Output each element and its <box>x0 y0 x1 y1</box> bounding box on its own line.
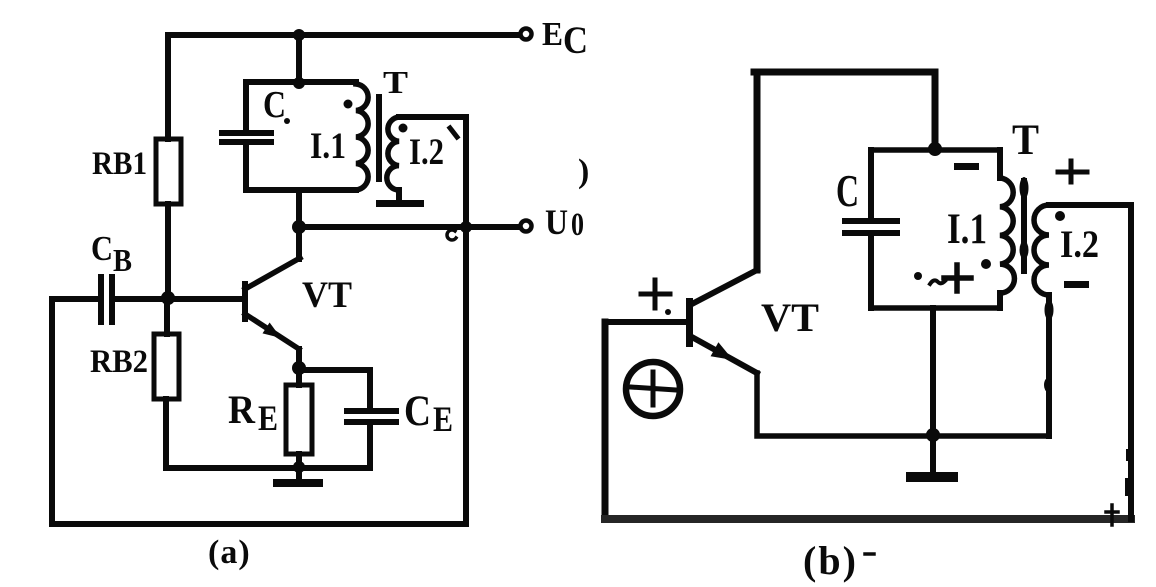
svg-text:T: T <box>1012 117 1039 164</box>
node: right vertical on U0 line <box>460 221 472 233</box>
node: ground junction (b) <box>926 428 940 442</box>
mark: minus below L2 (b) <box>1064 281 1089 288</box>
wire: emitter bottom line (b) <box>757 373 1049 436</box>
wire: tank left lower leg (b) <box>868 233 874 308</box>
transistor VT (b) emitter arm with arrow <box>690 336 757 373</box>
label L1 (b) <box>947 206 987 253</box>
svg-text:C: C <box>836 166 859 216</box>
polarity dot L2 (b) <box>1055 211 1065 221</box>
wire: RB1 to base node <box>165 204 171 299</box>
label (b) <box>803 538 874 583</box>
wire: right vertical (a) <box>463 117 469 524</box>
svg-text:(b): (b) <box>803 538 858 583</box>
wire: L2 bottom stub <box>396 190 402 201</box>
node: tank top junction <box>293 77 305 89</box>
mark: parenthesis <box>578 153 589 190</box>
wire: ground stub (b) <box>930 436 936 473</box>
wire: base node to RB2 <box>164 299 170 334</box>
svg-text:): ) <box>578 153 589 190</box>
node: tank top junction (b) <box>928 142 942 156</box>
svg-text:I.2: I.2 <box>1060 223 1099 266</box>
transistor VT (b) base bar <box>686 298 693 347</box>
wire: CE bottom leg <box>367 424 373 468</box>
label T (a) <box>383 64 408 100</box>
wire: tank bottom to collector <box>296 190 302 259</box>
wire: inner bottom rail (a) <box>166 465 370 471</box>
svg-text:U: U <box>545 202 568 242</box>
wire: collector vertical (b) <box>754 72 761 270</box>
label RB1 <box>92 146 147 182</box>
svg-text:I.1: I.1 <box>947 206 987 253</box>
svg-text:C: C <box>263 84 286 126</box>
node: collector junction on U0 line <box>292 220 306 234</box>
wire: feed to tank (b) <box>932 72 939 150</box>
mark: apostrophe right of L2 <box>450 128 457 137</box>
wire: tank left lower leg <box>243 144 249 190</box>
label L2 (a) <box>409 132 444 173</box>
wire: bottom rail (b) <box>605 515 1131 523</box>
label CB <box>91 229 132 278</box>
wire: L2 top to right vertical (b) <box>1049 202 1131 208</box>
label RB2 <box>90 344 148 380</box>
label EC <box>542 16 588 62</box>
wire: tank left upper leg (b) <box>868 150 874 219</box>
wire: tank bottom (b) <box>871 305 1000 311</box>
wire: U0 output line <box>299 224 519 230</box>
ground: L2 (a) <box>376 200 424 207</box>
source: circle with plus (b) <box>626 362 680 416</box>
node: base junction <box>161 291 175 305</box>
label U0 <box>545 202 584 243</box>
label T (b) <box>1012 117 1039 164</box>
svg-text:C: C <box>563 19 588 62</box>
transistor VT (a) collector arm <box>245 258 300 289</box>
polarity dot L2 (a) <box>399 124 408 133</box>
svg-text:B: B <box>113 242 132 278</box>
capacitor C (b) <box>845 221 897 233</box>
label C (a) <box>263 84 290 126</box>
wire: top rail (b) <box>754 69 935 76</box>
mark: tick on bottom rail (b) <box>1106 505 1118 525</box>
wire: left vertical (b) <box>602 322 609 519</box>
wire: input to CB <box>52 296 99 302</box>
svg-text:C: C <box>404 388 431 435</box>
transistor VT (a) emitter arm with arrow <box>245 314 299 349</box>
inductor L2 (b) <box>1034 205 1049 295</box>
svg-text:R: R <box>228 387 256 432</box>
wire: tank center vertical (b) <box>930 308 936 436</box>
ground (a) <box>273 479 323 487</box>
transformer core T (a) <box>376 94 382 182</box>
label RE <box>228 387 278 438</box>
node: RE bottom junction <box>293 461 305 473</box>
wire: tank top (b) <box>871 147 1000 153</box>
svg-text:C: C <box>91 229 113 268</box>
label C (b) <box>836 166 859 216</box>
label L1 (a) <box>310 126 346 167</box>
terminal EC <box>521 29 532 40</box>
label VT (b) <box>761 295 819 340</box>
terminal U0 <box>521 221 532 232</box>
svg-text:I.1: I.1 <box>310 126 346 167</box>
transistor VT (b) collector arm <box>690 270 757 305</box>
svg-text:E: E <box>433 399 453 439</box>
mark: plus bottom of tank (b) <box>944 265 971 291</box>
mark: smudge e near U0 junction <box>447 230 456 240</box>
mark: plus near base (b) <box>641 280 671 315</box>
wire: rail to tank top <box>296 35 302 82</box>
wire: top supply rail (a) <box>168 32 519 38</box>
wire: tank left upper leg <box>243 82 249 131</box>
mark: plus above L2 (b) <box>1058 161 1087 182</box>
wire: CE top leg <box>367 370 373 409</box>
label (a) <box>208 534 251 571</box>
mark: squiggle left of plus (b) <box>930 280 945 284</box>
wire: tank bottom (a) <box>246 187 356 193</box>
svg-text:(a): (a) <box>208 534 251 571</box>
label L2 (b) <box>1060 223 1099 266</box>
svg-text:RB1: RB1 <box>92 146 147 182</box>
svg-text:T: T <box>383 64 408 100</box>
polarity dot L1 (b) <box>981 259 991 269</box>
mark: small dot left (b) <box>914 272 922 280</box>
node: emitter junction <box>292 361 306 375</box>
mark: minus top of tank (b) <box>954 163 979 170</box>
svg-text:RB2: RB2 <box>90 344 148 380</box>
wire: right vertical (b) <box>1125 205 1133 519</box>
wire: left outer vertical (a) <box>49 299 55 524</box>
inductor L2 (a) <box>387 117 399 190</box>
wire: base wire (b) <box>605 319 686 325</box>
ground (b) <box>906 472 958 482</box>
wire: bottom rail (a) <box>52 521 466 527</box>
inductor L1 (a) <box>356 84 368 190</box>
wire: emitter to CE top <box>299 367 370 373</box>
resistor RE <box>286 385 312 454</box>
svg-text:I.2: I.2 <box>409 132 444 173</box>
svg-text:VT: VT <box>302 275 352 316</box>
label VT (a) <box>302 275 352 316</box>
resistor RB2 <box>154 334 179 399</box>
wire: tank right upper stub (b) <box>997 150 1003 178</box>
wire: CB to base node <box>114 296 242 302</box>
polarity dot L1 (a) <box>344 100 353 109</box>
inductor L1 (b) <box>1000 178 1014 293</box>
transformer core T (b) <box>1020 177 1029 274</box>
wire: RB2 to inner bottom rail <box>163 399 169 468</box>
svg-text:VT: VT <box>761 295 819 340</box>
label CE <box>404 388 453 439</box>
wire: RE bottom <box>296 454 302 480</box>
capacitor CE <box>347 411 396 422</box>
wire: L2 top to right vertical <box>399 114 466 120</box>
svg-text:0: 0 <box>571 207 584 243</box>
wire: tank right lower stub (b) <box>997 293 1003 308</box>
resistor RB1 <box>156 139 181 204</box>
wire: L2 bottom vertical (b) <box>1044 295 1054 436</box>
node: rail junction <box>293 29 305 41</box>
svg-text:E: E <box>542 16 563 53</box>
capacitor C (a) <box>222 133 271 142</box>
wire: left vertical from rail to RB1 <box>165 35 171 139</box>
capacitor CB <box>101 277 112 322</box>
svg-text:E: E <box>258 398 278 438</box>
transistor VT (a) base bar <box>242 281 248 322</box>
wire: emitter vertical <box>296 349 302 385</box>
wire: tank top (a) <box>246 79 356 85</box>
